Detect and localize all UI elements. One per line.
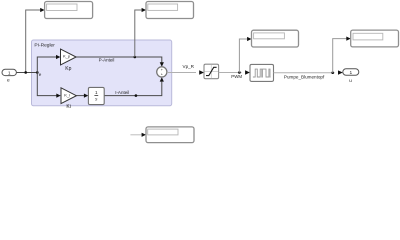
arrowhead into Display1 xyxy=(40,8,44,12)
display Display2 xyxy=(146,2,194,19)
junction dot F xyxy=(331,71,334,74)
wire e main xyxy=(16,71,37,73)
subsystem area PI-Regler xyxy=(32,40,172,106)
junction dot C xyxy=(134,56,137,59)
wire branch to Display4 xyxy=(333,39,347,73)
wire branch to Display2 xyxy=(135,10,142,57)
wire branch to Display3 xyxy=(239,39,247,72)
arrowhead into Display3 xyxy=(247,37,251,41)
wire Ki to integrator xyxy=(76,95,84,97)
gain Kp xyxy=(61,49,77,65)
svg-text:P-Anteil: P-Anteil xyxy=(99,57,115,62)
svg-text:Vp_R: Vp_R xyxy=(183,64,195,69)
svg-text:K_i: K_i xyxy=(64,92,70,97)
arrowhead into Ki xyxy=(56,94,60,98)
arrowhead into Kp xyxy=(56,55,60,59)
svg-text:PI-Regler: PI-Regler xyxy=(34,42,55,48)
svg-text:K_p: K_p xyxy=(63,54,71,59)
svg-text:Ki: Ki xyxy=(66,104,70,110)
arrowhead into PWM block xyxy=(245,70,250,75)
wire to gain Ki xyxy=(37,72,56,95)
wire branch to Display1 xyxy=(26,10,41,72)
gain Ki xyxy=(61,88,76,104)
inport 1 xyxy=(2,69,16,75)
junction dot D xyxy=(135,94,138,97)
junction dot E xyxy=(238,71,241,74)
svg-text:I-Anteil: I-Anteil xyxy=(115,90,129,95)
outport 1 xyxy=(343,69,359,75)
arrowhead into Display2 xyxy=(142,8,146,12)
arrowhead into Display5 xyxy=(142,133,146,137)
display Display3 xyxy=(252,30,299,47)
arrowhead into saturation xyxy=(199,70,204,75)
wire Vp_R sum to saturation xyxy=(167,71,196,73)
svg-text:1: 1 xyxy=(8,70,11,76)
svg-text:u: u xyxy=(349,79,352,84)
wire to gain Kp xyxy=(37,57,56,72)
pwm generator block xyxy=(250,64,274,81)
svg-text:e: e xyxy=(7,79,10,84)
svg-text:Kp: Kp xyxy=(65,66,71,72)
display Display5 xyxy=(146,127,194,143)
arrowhead into sum bottom xyxy=(160,77,164,81)
display Display4 xyxy=(351,30,399,47)
wire P-Anteil xyxy=(76,57,162,63)
arrowhead into integrator xyxy=(84,94,88,98)
junction dot A xyxy=(24,71,27,74)
wire saturation to PWM block xyxy=(219,71,242,73)
svg-text:1: 1 xyxy=(349,70,352,76)
svg-text:Pumpe_Blumentopf: Pumpe_Blumentopf xyxy=(284,75,325,80)
svg-text:e: e xyxy=(39,72,42,77)
svg-text:1: 1 xyxy=(95,90,98,95)
display Display1 xyxy=(45,2,93,19)
svg-text:PWM: PWM xyxy=(231,74,242,79)
junction dot B xyxy=(36,71,39,74)
stub wire into Display5 xyxy=(130,134,142,136)
arrowhead into sum top xyxy=(160,62,164,66)
arrowhead into outport xyxy=(338,70,343,74)
sum block xyxy=(157,67,167,77)
wire PWM block to outport xyxy=(274,72,335,74)
integrator 1/s xyxy=(88,87,104,104)
saturation block xyxy=(204,64,219,79)
arrowhead into Display4 xyxy=(346,37,350,41)
wire I-Anteil xyxy=(104,82,162,96)
